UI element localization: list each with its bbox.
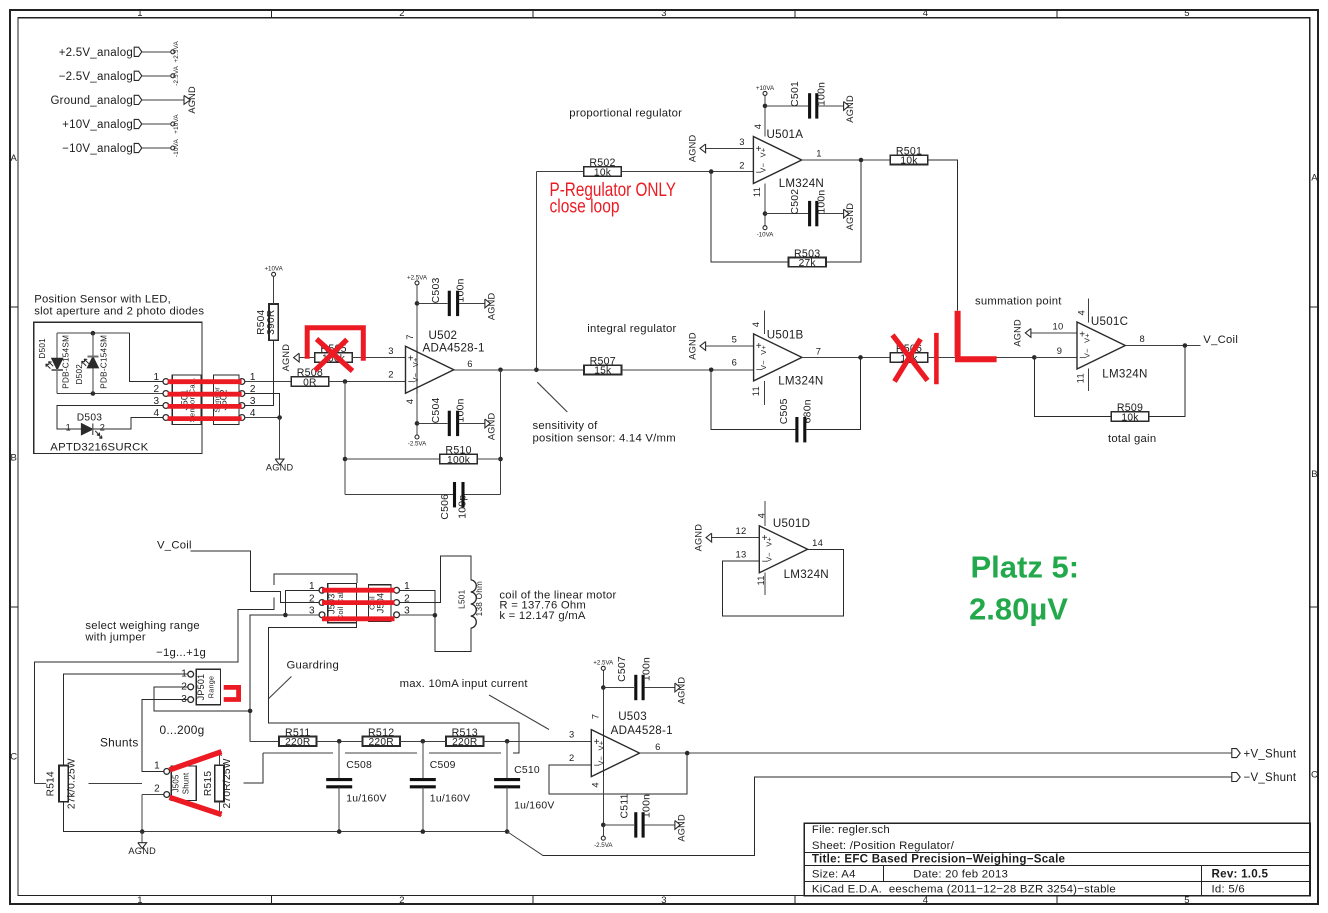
junction U501A output (859, 158, 864, 163)
power symbol AGND (281, 344, 299, 372)
wire U503 output to +V_Shunt (640, 752, 1232, 754)
wire J502 pin1 to R508 (245, 381, 292, 383)
wire U502 V- pin4 (416, 393, 418, 435)
svg-text:sensitivity of: sensitivity of (533, 420, 599, 432)
output label +V_Shunt (1232, 748, 1297, 760)
wire U501A pin3 AGND (706, 147, 754, 149)
svg-text:V+: V+ (759, 148, 768, 158)
global label −2.5V_analog (59, 71, 142, 83)
svg-text:1: 1 (816, 148, 821, 159)
svg-text:+10VA: +10VA (173, 114, 180, 134)
svg-text:proportional regulator: proportional regulator (569, 108, 682, 120)
wire J504 pin1 drop (400, 590, 435, 615)
svg-text:C510: C510 (514, 765, 540, 776)
wire U501B power stubs (764, 311, 766, 334)
svg-text:max. 10mA input current: max. 10mA input current (400, 678, 529, 690)
connector J501 (153, 372, 201, 425)
wire C511 to AGND (645, 824, 675, 826)
resistor R501 (890, 145, 927, 166)
wire C508 drop (338, 741, 340, 779)
svg-text:100k: 100k (447, 455, 471, 466)
power symbol AGND (128, 843, 156, 856)
svg-text:11: 11 (755, 575, 766, 585)
capacitor C502 (790, 189, 827, 227)
wire U501A feedback left (711, 172, 788, 263)
wire -1g net upper (274, 574, 357, 585)
wire J502 pin2 jog down (245, 394, 280, 418)
svg-text:Ground_analog: Ground_analog (50, 95, 133, 107)
junction C509 bottom (421, 829, 426, 834)
wire C506 row (345, 494, 453, 496)
svg-text:13: 13 (736, 548, 747, 559)
wire U503 V+ pin7 (602, 670, 604, 729)
svg-text:4: 4 (1075, 310, 1086, 315)
wire to R511 (250, 740, 279, 742)
connector J502 (212, 372, 256, 425)
wire −10V_analog (142, 147, 171, 149)
svg-text:2: 2 (388, 369, 393, 380)
svg-text:total gain: total gain (1108, 433, 1156, 445)
svg-text:100n: 100n (642, 657, 653, 681)
svg-text:−10V_analog: −10V_analog (62, 143, 133, 155)
red annotation bar near summation (934, 333, 939, 384)
junction J503 pins 1+3 (283, 613, 288, 618)
wire to C504 (417, 422, 448, 424)
wire C509 drop (422, 741, 424, 779)
svg-text:4: 4 (923, 8, 929, 19)
wire C502 to AGND (818, 213, 843, 215)
svg-text:C509: C509 (430, 760, 456, 771)
svg-text:1: 1 (153, 372, 159, 383)
svg-text:Rev: 1.0.5: Rev: 1.0.5 (1212, 868, 1269, 881)
svg-text:V−: V− (759, 360, 768, 370)
wire U501A feedback right (826, 160, 861, 262)
svg-text:U501C: U501C (1091, 315, 1128, 328)
svg-text:L501: L501 (457, 589, 466, 608)
connector J503 (309, 581, 357, 623)
svg-text:position sensor: 4.14 V/mm: position sensor: 4.14 V/mm (533, 432, 676, 444)
svg-text:AGND: AGND (486, 413, 496, 441)
capacitor C501 (790, 81, 827, 119)
junction fb R510 right (498, 457, 503, 462)
svg-text:AGND: AGND (266, 462, 294, 472)
svg-text:2: 2 (399, 895, 405, 906)
wire U503 V- pin4 (602, 777, 604, 837)
capacitor C509 (410, 760, 470, 804)
wire D503 to J501 pin4 (93, 418, 163, 430)
wire R512-R513 (399, 740, 447, 742)
R515 pin stubs (218, 754, 220, 766)
svg-text:U501A: U501A (767, 128, 804, 141)
capacitor C507 (617, 656, 653, 700)
wire R505 to U502 pin3 (352, 357, 405, 359)
svg-text:C508: C508 (346, 760, 372, 771)
junction V- C511 (601, 823, 606, 828)
wire -V_Shunt sense (507, 832, 543, 856)
capacitor C505 (779, 398, 814, 442)
resistor R504 (256, 304, 278, 340)
svg-text:2: 2 (309, 593, 315, 604)
svg-text:4: 4 (750, 322, 761, 327)
svg-text:4: 4 (404, 399, 415, 404)
red annotation jumper J505 pin2 to R515 bottom (170, 797, 222, 814)
wire to C502 (765, 213, 808, 215)
wire D501 leads (56, 333, 58, 358)
global label +10V_analog (62, 119, 142, 131)
wire R511-R512 (316, 740, 363, 742)
svg-text:V−: V− (759, 163, 768, 173)
svg-text:3: 3 (181, 694, 187, 705)
svg-text:Sheet: /Position Regulator/: Sheet: /Position Regulator/ (812, 840, 955, 852)
red annotation X over R506 (893, 335, 928, 382)
svg-text:2: 2 (569, 752, 574, 763)
svg-text:11: 11 (751, 187, 762, 197)
capacitor C503 (431, 277, 467, 316)
svg-text:2: 2 (399, 8, 405, 19)
svg-text:V−: V− (411, 373, 420, 383)
svg-text:12: 12 (736, 525, 747, 536)
resistor R508 (291, 367, 328, 388)
svg-text:1u/160V: 1u/160V (346, 793, 386, 804)
svg-text:ADA4528-1: ADA4528-1 (611, 724, 673, 737)
svg-text:100n: 100n (816, 190, 827, 214)
wire JP501 pin3 to J505 pin1 (142, 700, 188, 772)
svg-text:138 Ohm: 138 Ohm (475, 581, 484, 616)
op-amp U501D LM324N (736, 513, 829, 586)
connector J505 (154, 760, 196, 800)
red annotation staple at JP501 (224, 687, 239, 699)
power symbol AGND (687, 135, 705, 163)
wire U501B output (802, 356, 891, 358)
svg-text:integral regulator: integral regulator (587, 323, 676, 335)
svg-text:1: 1 (66, 423, 71, 433)
power symbol AGND (485, 413, 497, 441)
svg-text:LM324N: LM324N (784, 568, 829, 581)
wire J502 pin4 (245, 417, 280, 419)
power symbol AGND (844, 203, 856, 231)
wire U501B pin5 AGND (706, 345, 754, 347)
svg-text:5: 5 (732, 334, 737, 345)
wire shunt jumper stub (34, 782, 46, 784)
wire U501D feedback loop (723, 549, 844, 616)
wire R504 to +10VA (273, 276, 275, 304)
connector J504 (368, 581, 410, 621)
wire U502 power through-line (416, 346, 418, 393)
svg-text:LM324N: LM324N (1102, 367, 1147, 380)
svg-text:R514: R514 (46, 771, 57, 796)
svg-text:3: 3 (739, 136, 744, 147)
svg-text:Date: 20 feb 2013: Date: 20 feb 2013 (913, 869, 1008, 881)
resistor R506 (890, 343, 927, 364)
svg-text:C511: C511 (619, 793, 630, 818)
junction U502 output node (498, 368, 503, 373)
red annotation L at summation (955, 311, 997, 360)
wire U501B feedback right (806, 357, 860, 429)
wire pin4 to AGND (279, 418, 281, 460)
junction V- C502 (763, 211, 768, 216)
wire photodiode top (57, 332, 130, 334)
leader line guardring (268, 677, 291, 700)
svg-text:V−: V− (1082, 348, 1091, 358)
svg-text:220R: 220R (452, 737, 477, 748)
svg-text:6: 6 (655, 741, 660, 752)
svg-text:AGND: AGND (687, 135, 697, 163)
junction shunt select node (248, 709, 253, 714)
svg-text:Shunt: Shunt (181, 772, 190, 794)
junction C508 bottom (337, 829, 342, 834)
resistor R505 (315, 343, 352, 364)
svg-text:APTD3216SURCK: APTD3216SURCK (50, 442, 148, 454)
op-amp U503 ADA4528-1 (569, 710, 673, 787)
svg-text:B: B (1311, 469, 1318, 480)
svg-text:Shunts: Shunts (100, 735, 139, 749)
wire J504 pin2 to coil top (400, 556, 471, 603)
resistor R512 (363, 727, 400, 748)
svg-text:U502: U502 (429, 329, 458, 342)
svg-text:15k: 15k (594, 366, 612, 377)
junction C509 top (421, 739, 426, 744)
wire U501C power stubs (1088, 299, 1090, 323)
svg-text:J505: J505 (172, 774, 181, 792)
svg-text:Position Sensor with LED,: Position Sensor with LED, (34, 294, 171, 306)
global label +2.5V_analog (59, 47, 142, 59)
svg-text:Guardring: Guardring (287, 659, 340, 671)
junction J504 pins 1+3 (433, 613, 438, 618)
svg-text:1: 1 (181, 669, 187, 680)
svg-text:AGND: AGND (281, 344, 291, 372)
svg-text:−2.5V_analog: −2.5V_analog (59, 71, 133, 83)
guard ring trace (243, 623, 519, 783)
svg-text:V+: V+ (597, 741, 606, 751)
svg-text:+2.5VA: +2.5VA (407, 274, 428, 281)
wire U502 output (453, 369, 455, 371)
svg-text:KiCad E.D.A. eeschema (2011−1: KiCad E.D.A. eeschema (2011−12−28 BZR 32… (812, 884, 1116, 896)
svg-text:680n: 680n (803, 399, 814, 423)
svg-text:-10VA: -10VA (173, 138, 180, 157)
svg-text:10k: 10k (900, 156, 918, 167)
junction U501C output (1183, 343, 1188, 348)
svg-text:AGND: AGND (676, 814, 686, 842)
svg-text:V+: V+ (411, 357, 420, 367)
junction C510 top (505, 739, 510, 744)
junction V+ C501 (763, 104, 768, 109)
svg-text:C503: C503 (431, 277, 442, 303)
svg-text:2: 2 (181, 681, 187, 692)
power symbol +10VA (171, 114, 180, 134)
svg-text:5: 5 (1184, 895, 1190, 906)
junction summation point (1032, 355, 1037, 360)
svg-text:Id: 5/6: Id: 5/6 (1212, 884, 1245, 896)
svg-text:9: 9 (1057, 345, 1062, 356)
wire U501A V- pin11 (764, 183, 766, 225)
wire C509 to rail (422, 787, 424, 832)
svg-text:U503: U503 (618, 710, 647, 723)
svg-text:4: 4 (589, 782, 600, 787)
wire R513 to U503 (483, 740, 592, 742)
svg-text:0R: 0R (303, 377, 317, 388)
svg-text:C501: C501 (790, 81, 801, 107)
svg-text:+10V_analog: +10V_analog (62, 119, 133, 131)
svg-text:10: 10 (1053, 321, 1064, 332)
resistor R515 (203, 758, 233, 808)
wire AGND bottom rail (142, 831, 507, 833)
svg-text:AGND: AGND (128, 846, 156, 856)
svg-text:10k: 10k (594, 168, 612, 179)
junction V+ C503 (415, 301, 420, 306)
svg-text:1: 1 (154, 760, 160, 771)
svg-text:Size: A4: Size: A4 (812, 869, 856, 881)
svg-text:AGND: AGND (693, 524, 703, 552)
resistor R503 (789, 248, 826, 269)
power symbol -2.5VA (594, 836, 613, 849)
wire U502 V+ pin7 (416, 285, 418, 346)
svg-text:3: 3 (661, 895, 667, 906)
power symbol AGND (266, 459, 294, 472)
power symbol +10VA (756, 85, 775, 96)
diode D502 (75, 335, 109, 389)
svg-text:C506: C506 (440, 494, 451, 520)
capacitor C508 (326, 760, 386, 804)
wire photodiode bottom (57, 393, 163, 395)
wire R502 to U501A pin2 (621, 171, 753, 173)
wire U501C feedback right (1149, 346, 1185, 417)
svg-text:3: 3 (569, 729, 574, 740)
svg-text:+10VA: +10VA (756, 85, 775, 92)
svg-text:C507: C507 (617, 656, 628, 682)
wire main line U502 out to R507 (453, 369, 584, 371)
wire J501 pin3 to D503 (57, 406, 163, 430)
wire C504 to AGND (459, 422, 485, 424)
wire V_Coil to J503 pin2 (190, 551, 319, 602)
wire to C503 (417, 302, 448, 304)
wire coil bottom loop (435, 615, 471, 651)
svg-text:3: 3 (309, 606, 315, 617)
svg-text:ADA4528-1: ADA4528-1 (423, 341, 485, 354)
svg-text:LM324N: LM324N (779, 177, 824, 190)
svg-text:D501: D501 (38, 338, 47, 359)
wire J503 pin3 (285, 614, 319, 616)
resistor R514 (46, 758, 78, 809)
op-amp U501C LM324N (1053, 310, 1148, 383)
junction pin2 node (709, 169, 714, 174)
svg-text:3: 3 (153, 396, 159, 407)
output label -V_Shunt (1232, 772, 1297, 784)
svg-text:2: 2 (100, 423, 105, 433)
wire R506 to summation (928, 356, 1035, 358)
wire pin1 drop (130, 333, 163, 381)
svg-text:-10VA: -10VA (757, 231, 775, 238)
svg-text:3: 3 (388, 345, 393, 356)
capacitor C511 (619, 793, 652, 837)
red annotation jumper J505 pin1 to R515 top (170, 752, 222, 770)
wire Ground_analog (142, 99, 184, 101)
svg-text:3: 3 (661, 8, 667, 19)
wire R510 row (345, 458, 440, 460)
svg-text:1u/160V: 1u/160V (430, 793, 470, 804)
wire U503 pin2 loop (549, 753, 687, 794)
svg-text:2: 2 (154, 784, 160, 795)
wire to J505 pin2 (141, 795, 143, 832)
power symbol AGND (184, 86, 197, 114)
junction photodiode top (91, 331, 96, 336)
svg-text:Title: EFC Based Precision−Wei: Title: EFC Based Precision−Weighing−Scal… (812, 852, 1066, 865)
wire U501C feedback left (1034, 357, 1111, 416)
power symbol AGND (675, 677, 687, 705)
wire U501C output (1125, 345, 1200, 347)
svg-text:6: 6 (732, 357, 737, 368)
title block (804, 823, 1310, 895)
capacitor C506 (440, 482, 469, 520)
wire R508 to U502 pin2 (328, 381, 405, 383)
wire U503 power through-line (602, 730, 604, 777)
wire U501C pin10 AGND (1031, 332, 1077, 334)
junction V+ C507 (601, 685, 606, 690)
svg-text:-2.5VA: -2.5VA (408, 441, 427, 448)
power symbol +2.5VA (593, 660, 614, 671)
svg-text:V_Coil: V_Coil (1203, 334, 1238, 346)
svg-text:AGND: AGND (845, 95, 855, 123)
svg-text:C504: C504 (431, 397, 442, 423)
diode D501 (38, 335, 70, 389)
svg-text:-2.5VA: -2.5VA (173, 65, 180, 86)
resistor R513 (446, 727, 483, 748)
svg-text:slot aperture and 2 photo diod: slot aperture and 2 photo diodes (34, 305, 204, 317)
capacitor C510 (494, 765, 554, 811)
svg-text:R515: R515 (203, 771, 214, 796)
svg-text:V_Coil: V_Coil (157, 540, 192, 552)
svg-text:8: 8 (1139, 333, 1144, 344)
power symbol -10VA (757, 226, 775, 239)
svg-text:11: 11 (750, 386, 761, 396)
connector JP501 (181, 669, 220, 705)
svg-text:2: 2 (739, 159, 744, 170)
svg-text:C: C (1311, 769, 1318, 780)
svg-text:V+: V+ (765, 537, 774, 547)
wire U501A V+ pin4 (764, 95, 766, 136)
svg-text:File: regler.sch: File: regler.sch (812, 824, 890, 836)
wire coil return down (250, 615, 285, 741)
wire AGND stub (141, 832, 143, 843)
op-amp U502 ADA4528-1 (388, 329, 484, 404)
svg-text:−V_Shunt: −V_Shunt (1244, 772, 1297, 784)
svg-text:C502: C502 (790, 189, 801, 215)
svg-text:AGND: AGND (676, 677, 686, 705)
wire to C507 (603, 687, 634, 689)
svg-text:4: 4 (153, 408, 159, 419)
sensor module box (34, 322, 202, 453)
svg-text:AGND: AGND (845, 203, 855, 231)
power symbol AGND (693, 524, 711, 552)
svg-text:V−: V− (765, 552, 774, 562)
wire U502 fb riser right (500, 370, 502, 495)
svg-text:1: 1 (137, 895, 143, 906)
svg-text:PDB-C154SM: PDB-C154SM (99, 335, 108, 389)
wire J502 pin3 to R504 (245, 340, 274, 405)
junction C508 top (337, 739, 342, 744)
svg-text:1: 1 (309, 581, 315, 592)
svg-text:2.80µV: 2.80µV (969, 592, 1068, 627)
wire +2.5V_analog (142, 51, 171, 53)
svg-text:7: 7 (816, 346, 821, 357)
wire U502 fb riser left (344, 382, 346, 495)
svg-text:10k: 10k (1121, 413, 1139, 424)
svg-text:+2.5VA: +2.5VA (593, 660, 614, 667)
svg-text:AGND: AGND (687, 332, 697, 360)
svg-text:100p: 100p (457, 495, 468, 519)
svg-text:C505: C505 (779, 398, 790, 424)
wire U501B feedback left (711, 370, 795, 430)
svg-text:6: 6 (467, 358, 472, 369)
